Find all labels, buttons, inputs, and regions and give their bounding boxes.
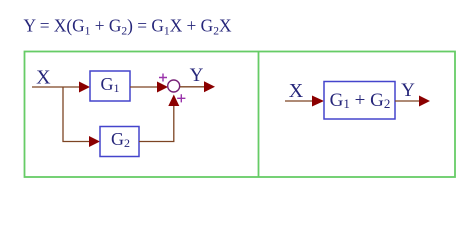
block G1+G2 (324, 82, 395, 120)
plus sign lower right (177, 94, 185, 102)
arrowhead into G1+G2 block (312, 96, 324, 107)
svg-text:X: X (36, 67, 51, 89)
arrowhead into summing junction from below (168, 95, 179, 107)
block G2 (100, 127, 139, 157)
svg-text:X: X (289, 80, 304, 102)
frame divider (258, 52, 260, 178)
arrowhead output Y left panel (204, 81, 215, 92)
svg-text:G1 + G2: G1 + G2 (330, 90, 391, 111)
svg-text:Y: Y (401, 80, 415, 101)
wire G1 to summing junction (130, 86, 158, 88)
frame outer (25, 52, 456, 178)
arrowhead into G1 (79, 82, 90, 93)
svg-text:Y = X(G1 + G2) = G1X + G2X: Y = X(G1 + G2) = G1X + G2X (24, 16, 232, 38)
wire branch down from X (63, 87, 90, 142)
arrowhead output Y right panel (419, 96, 430, 107)
arrowhead into summing junction from left (157, 82, 168, 93)
wire X input (32, 86, 80, 88)
wire G2 to summing junction (139, 106, 174, 142)
wire summing junction to Y (180, 86, 204, 88)
svg-text:Y: Y (190, 65, 204, 86)
wire block to Y right panel (395, 100, 419, 102)
block G1 (90, 71, 130, 101)
arrowhead into G2 (89, 136, 100, 147)
wire X input right panel (285, 100, 313, 102)
plus sign upper left (159, 74, 167, 82)
summing junction circle (168, 80, 180, 92)
